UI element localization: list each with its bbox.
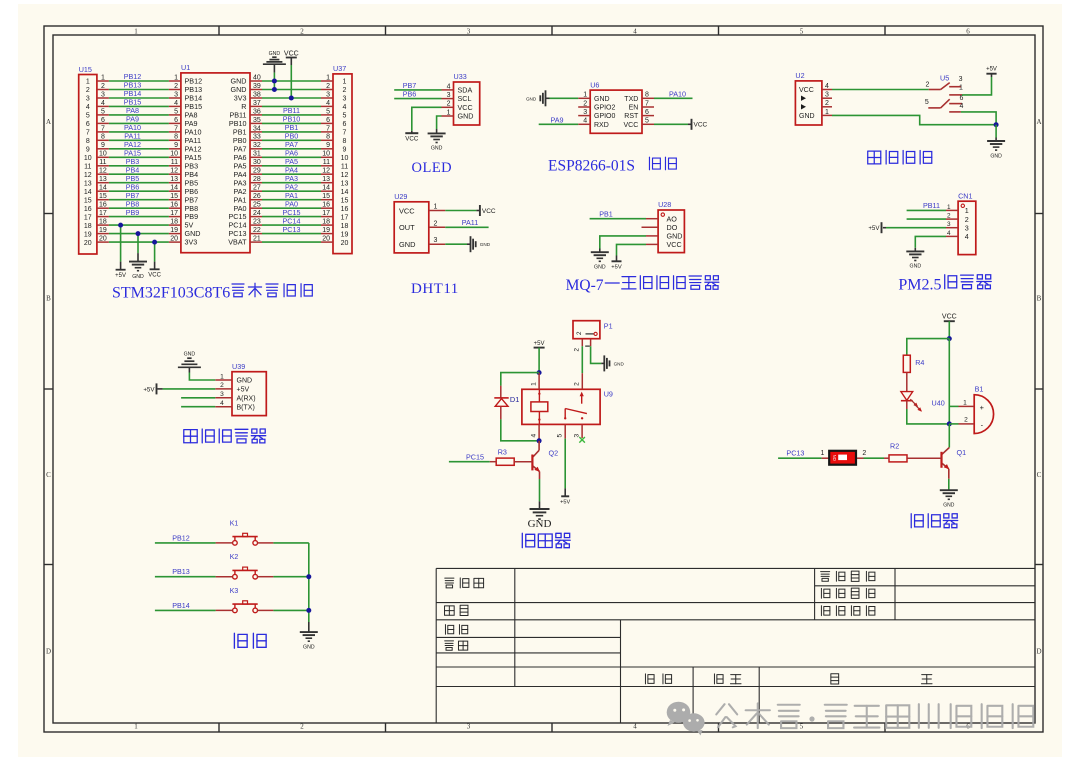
label sheet: [445, 605, 468, 615]
wire: [948, 339, 950, 424]
svg-text:34: 34: [253, 125, 261, 132]
svg-text:GND: GND: [458, 112, 474, 121]
svg-text:PB1: PB1: [599, 210, 613, 219]
svg-text:39: 39: [253, 83, 261, 90]
wire: [109, 131, 169, 133]
svg-text:K3: K3: [230, 588, 239, 595]
power +5V below U15: [115, 262, 126, 279]
svg-text:2: 2: [825, 100, 829, 107]
wire: [109, 105, 169, 107]
power VCC buzzer: [942, 314, 957, 322]
svg-text:RXD: RXD: [594, 122, 609, 129]
svg-text:17: 17: [170, 210, 178, 217]
label update date: [821, 571, 875, 581]
svg-text:GND: GND: [269, 51, 281, 57]
svg-text:STM32F103C8T6: STM32F103C8T6: [112, 285, 230, 302]
svg-text:1: 1: [134, 28, 138, 36]
svg-text:A(RX): A(RX): [237, 395, 256, 402]
svg-text:D: D: [46, 648, 51, 656]
svg-text:CN1: CN1: [958, 192, 972, 201]
svg-text:1: 1: [434, 204, 438, 211]
svg-text:10: 10: [84, 155, 92, 162]
no-connect pin3: [579, 437, 585, 443]
wire: [109, 114, 169, 116]
svg-text:6: 6: [959, 95, 963, 102]
power VCC ESP pin5: [688, 119, 708, 130]
svg-text:2: 2: [964, 417, 968, 424]
svg-text:5: 5: [86, 113, 90, 120]
svg-text:TXD: TXD: [624, 96, 638, 103]
svg-text:23: 23: [253, 219, 261, 226]
junction: [272, 87, 277, 92]
power +5V relay contact: [560, 488, 570, 505]
wire: [539, 479, 541, 501]
svg-text:13: 13: [170, 176, 178, 183]
svg-text:18: 18: [170, 219, 178, 226]
sensor U28 MQ-7: [642, 200, 685, 252]
label page: [831, 674, 839, 684]
wire: [864, 457, 885, 459]
svg-text:8: 8: [86, 138, 90, 145]
wire: [109, 139, 169, 141]
power VCC OLED: [405, 131, 419, 143]
wire: [262, 122, 321, 124]
svg-text:K1: K1: [230, 520, 239, 527]
svg-text:2: 2: [326, 83, 330, 90]
svg-text:U2: U2: [795, 71, 804, 80]
wire: [412, 107, 442, 131]
svg-text:3: 3: [467, 722, 471, 730]
svg-text:6: 6: [343, 121, 347, 128]
svg-text:14: 14: [99, 185, 107, 192]
svg-text:10: 10: [170, 151, 178, 158]
svg-text:1: 1: [86, 79, 90, 86]
svg-text:U6: U6: [590, 80, 599, 89]
svg-text:16: 16: [322, 202, 330, 209]
svg-text:GND: GND: [528, 518, 552, 530]
svg-text:+5V: +5V: [611, 264, 622, 270]
svg-text:12: 12: [99, 168, 107, 175]
svg-text:1: 1: [220, 373, 224, 380]
wire: [262, 165, 321, 167]
ground ESP pin1: [526, 90, 550, 106]
svg-text:16: 16: [170, 202, 178, 209]
wire: [181, 397, 215, 399]
ground PM2.5: [906, 248, 924, 270]
wire: [832, 115, 996, 124]
svg-text:4: 4: [86, 104, 90, 111]
svg-text:OLED: OLED: [412, 160, 453, 176]
svg-text:+5V: +5V: [143, 386, 155, 393]
resistor R4: [903, 355, 924, 391]
wire: [948, 479, 950, 490]
ground P1: [601, 355, 624, 371]
svg-text:2: 2: [574, 382, 581, 386]
module U33 OLED: [442, 72, 480, 125]
label create date: [821, 588, 874, 598]
wire: [262, 216, 321, 218]
svg-text:33: 33: [253, 134, 261, 141]
svg-text:19: 19: [84, 231, 92, 238]
svg-text:6: 6: [101, 117, 105, 124]
svg-text:15: 15: [341, 197, 349, 204]
svg-text:VCC: VCC: [667, 240, 682, 249]
svg-text:2: 2: [926, 82, 930, 89]
sensor U29 DHT11: [394, 192, 445, 253]
svg-text:4: 4: [965, 232, 969, 241]
ground Q1 emitter: [940, 490, 958, 509]
svg-text:17: 17: [322, 210, 330, 217]
svg-text:4: 4: [447, 83, 451, 90]
svg-text:16: 16: [84, 206, 92, 213]
svg-text:GND: GND: [132, 274, 144, 280]
svg-text:12: 12: [84, 172, 92, 179]
svg-text:GND: GND: [303, 644, 315, 650]
mcu U1: [169, 63, 262, 253]
wire: [915, 236, 946, 247]
wire: [262, 156, 321, 158]
wire: [109, 224, 169, 226]
wire: [394, 98, 441, 100]
svg-text:C: C: [46, 471, 51, 479]
wire: [832, 89, 929, 91]
wire: [273, 73, 275, 90]
svg-text:GPIO0: GPIO0: [594, 113, 616, 120]
svg-text:+5V: +5V: [237, 387, 250, 394]
power VCC DHT11: [476, 205, 496, 216]
svg-text:16: 16: [99, 202, 107, 209]
svg-text:4: 4: [633, 722, 637, 730]
wire: [109, 173, 169, 175]
svg-text:19: 19: [341, 231, 349, 238]
svg-text:B: B: [1037, 295, 1042, 303]
svg-text:D1: D1: [510, 395, 519, 404]
svg-text:GND: GND: [184, 352, 196, 358]
svg-text:ON: ON: [832, 455, 837, 461]
svg-text:3: 3: [947, 221, 951, 228]
wire: [995, 125, 997, 138]
svg-text:15: 15: [170, 193, 178, 200]
svg-text:17: 17: [99, 210, 107, 217]
power +5V MQ-7: [611, 256, 622, 271]
ground below U15: [129, 253, 147, 280]
wire: [137, 234, 139, 254]
wire: [273, 542, 308, 544]
wire: [948, 424, 950, 448]
wire: [449, 461, 490, 463]
svg-text:4: 4: [530, 434, 537, 438]
ground buttons: [300, 622, 318, 650]
svg-text:9: 9: [174, 142, 178, 149]
junction: [947, 336, 952, 341]
svg-text:5: 5: [800, 28, 804, 36]
svg-text:2: 2: [576, 331, 583, 335]
svg-text:11: 11: [171, 159, 178, 166]
svg-text:PB6: PB6: [403, 90, 417, 99]
wire: [109, 207, 169, 209]
wire: [154, 242, 156, 262]
svg-text:11: 11: [323, 159, 330, 166]
wire: [155, 576, 216, 578]
svg-text:15: 15: [322, 193, 330, 200]
svg-text:VCC: VCC: [399, 206, 415, 215]
svg-text:1: 1: [530, 382, 537, 386]
wire: [109, 190, 169, 192]
svg-text:11: 11: [84, 164, 91, 171]
wire: [290, 65, 292, 98]
svg-text:20: 20: [341, 240, 349, 247]
svg-text:25: 25: [253, 202, 261, 209]
svg-text:18: 18: [84, 223, 92, 230]
wire: [262, 148, 321, 150]
svg-text:GND: GND: [614, 361, 625, 366]
wire: [155, 609, 216, 611]
wire: [501, 419, 539, 440]
svg-text:14: 14: [170, 185, 178, 192]
wire: [907, 218, 946, 220]
junction: [152, 240, 157, 245]
svg-text:6: 6: [645, 109, 649, 116]
svg-text:VCC: VCC: [694, 122, 708, 129]
svg-text:B(TX): B(TX): [237, 404, 255, 411]
svg-text:3: 3: [467, 28, 471, 36]
svg-text:3: 3: [343, 96, 347, 103]
wire: [654, 97, 693, 99]
svg-text:4: 4: [220, 400, 224, 407]
switch U5: [925, 74, 964, 112]
svg-text:R2: R2: [890, 441, 899, 450]
wire: [445, 243, 467, 245]
sensor U39 formaldehyde: [215, 362, 266, 416]
svg-text:14: 14: [84, 189, 92, 196]
wire: [109, 199, 169, 201]
label version: [645, 674, 671, 684]
svg-text:2: 2: [447, 101, 451, 108]
relay U9: [522, 373, 613, 441]
svg-text:C: C: [1037, 471, 1042, 479]
svg-text:U15: U15: [79, 65, 92, 74]
svg-text:6: 6: [326, 117, 330, 124]
svg-text:30: 30: [253, 159, 261, 166]
svg-text:20: 20: [322, 236, 330, 243]
wire: [109, 122, 169, 124]
power +5V relay coil: [534, 341, 545, 347]
svg-text:EN: EN: [629, 105, 639, 112]
wire: [109, 80, 169, 82]
wire: [262, 97, 321, 99]
svg-text:13: 13: [322, 176, 330, 183]
wire: [501, 373, 539, 386]
svg-text:GND: GND: [480, 242, 491, 247]
svg-text:24: 24: [253, 210, 261, 217]
svg-text:GND: GND: [594, 96, 610, 103]
svg-text:15: 15: [84, 197, 92, 204]
label schematic: [445, 578, 484, 588]
svg-text:3: 3: [573, 434, 580, 438]
wire: [109, 241, 169, 243]
ground Q2 emitter: [528, 501, 552, 530]
wire: [262, 199, 321, 201]
wire: [262, 139, 321, 141]
svg-text:38: 38: [253, 91, 261, 98]
svg-text:GPIO2: GPIO2: [594, 105, 616, 112]
svg-text:8: 8: [645, 92, 649, 99]
svg-text:7: 7: [174, 125, 178, 132]
svg-text:Q2: Q2: [549, 448, 559, 457]
svg-text:A: A: [46, 118, 51, 126]
svg-text:4: 4: [825, 83, 829, 90]
svg-text:1: 1: [101, 74, 105, 81]
svg-text:3: 3: [583, 109, 587, 116]
svg-text:4: 4: [343, 104, 347, 111]
svg-text:DHT11: DHT11: [411, 281, 459, 297]
wire: [654, 123, 688, 125]
svg-text:3: 3: [447, 92, 451, 99]
svg-text:GND: GND: [399, 240, 415, 249]
svg-text:PB9: PB9: [126, 208, 140, 217]
svg-text:22: 22: [253, 227, 261, 234]
svg-text:36: 36: [253, 108, 261, 115]
svg-text:16: 16: [341, 206, 349, 213]
svg-text:U40: U40: [932, 398, 945, 407]
svg-text:28: 28: [253, 176, 261, 183]
svg-text:12: 12: [170, 168, 178, 175]
svg-text:3: 3: [965, 223, 969, 232]
svg-text:3: 3: [220, 391, 224, 398]
svg-text:GND: GND: [431, 146, 443, 152]
svg-text:4: 4: [633, 28, 637, 36]
svg-text:5: 5: [101, 108, 105, 115]
wire: [262, 224, 321, 226]
svg-text:1: 1: [963, 399, 967, 406]
svg-text:A: A: [1036, 118, 1041, 126]
svg-text:1: 1: [825, 109, 829, 116]
svg-text:5: 5: [800, 722, 804, 730]
wire: [189, 373, 215, 381]
svg-text:B1: B1: [975, 385, 984, 394]
connector U37: [321, 64, 352, 253]
svg-text:U5: U5: [940, 74, 949, 83]
svg-text:7: 7: [343, 130, 347, 137]
svg-text:GND: GND: [990, 153, 1002, 159]
wire: [581, 346, 583, 373]
svg-text:GND: GND: [237, 378, 253, 385]
wire: [948, 321, 950, 338]
svg-text:18: 18: [322, 219, 330, 226]
wire: [109, 165, 169, 167]
wire: [262, 131, 321, 133]
junction: [272, 79, 277, 84]
wire: [262, 80, 321, 82]
connector U2: [795, 71, 832, 125]
svg-text:4: 4: [174, 100, 178, 107]
wire: [262, 182, 321, 184]
svg-text:7: 7: [101, 125, 105, 132]
wire: [109, 216, 169, 218]
svg-text:4: 4: [326, 100, 330, 107]
svg-text:VCC: VCC: [148, 273, 161, 279]
svg-text:13: 13: [99, 176, 107, 183]
wire: [109, 97, 169, 99]
svg-text:1: 1: [821, 450, 825, 457]
svg-text:Q1: Q1: [957, 448, 967, 457]
svg-text:18: 18: [99, 219, 107, 226]
svg-text:4: 4: [947, 230, 951, 237]
junction: [306, 574, 311, 579]
resistor R2: [884, 441, 942, 462]
title buttons: [234, 633, 266, 648]
wire: [886, 227, 946, 229]
junction: [994, 122, 999, 127]
wire: [600, 236, 646, 249]
svg-text:1: 1: [447, 109, 451, 116]
wire: [109, 233, 169, 235]
svg-text:13: 13: [341, 180, 349, 187]
wire: [907, 209, 946, 211]
transistor Q2: [532, 441, 558, 479]
svg-text:GND: GND: [799, 113, 815, 120]
svg-text:VCC: VCC: [405, 136, 419, 143]
wire: [273, 609, 308, 611]
svg-text:3: 3: [825, 92, 829, 99]
svg-text:2: 2: [862, 450, 866, 457]
diode D1: [494, 386, 519, 420]
wire: [262, 233, 321, 235]
svg-text:14: 14: [341, 189, 349, 196]
svg-text:20: 20: [99, 236, 107, 243]
wire: [445, 226, 488, 228]
svg-text:1: 1: [343, 79, 347, 86]
svg-text:4: 4: [959, 103, 963, 110]
svg-text:VCC: VCC: [482, 208, 496, 215]
junction: [118, 223, 123, 228]
svg-text:PA10: PA10: [669, 89, 686, 98]
wire: [262, 114, 321, 116]
ground GND above U1: [263, 51, 286, 72]
svg-text:R3: R3: [498, 448, 507, 457]
svg-text:PB7: PB7: [403, 81, 417, 90]
svg-text:19: 19: [99, 227, 107, 234]
svg-text:1: 1: [174, 74, 178, 81]
ground power module: [987, 138, 1005, 160]
svg-text:VCC: VCC: [284, 51, 299, 58]
svg-text:10: 10: [322, 151, 330, 158]
svg-text:15: 15: [99, 193, 107, 200]
svg-text:6: 6: [966, 28, 970, 36]
svg-text:2: 2: [947, 213, 951, 220]
svg-text:20: 20: [84, 240, 92, 247]
wire: [590, 218, 646, 220]
svg-text:PB14: PB14: [172, 601, 190, 610]
junction: [537, 370, 542, 375]
wire: [550, 97, 579, 99]
svg-text:U39: U39: [232, 362, 245, 371]
wire: [445, 210, 476, 212]
svg-text:3: 3: [101, 91, 105, 98]
svg-text:PC13: PC13: [283, 225, 301, 234]
wire: [961, 112, 996, 125]
wire: [262, 241, 321, 243]
svg-text:U28: U28: [658, 200, 671, 209]
svg-text:GND: GND: [943, 502, 955, 508]
svg-text:PA11: PA11: [462, 218, 479, 227]
svg-text:7: 7: [326, 125, 330, 132]
junction: [289, 96, 294, 101]
svg-text:PC15: PC15: [466, 452, 484, 461]
svg-text:6: 6: [86, 121, 90, 128]
svg-text:10: 10: [99, 151, 107, 158]
switch K3: [216, 588, 274, 613]
